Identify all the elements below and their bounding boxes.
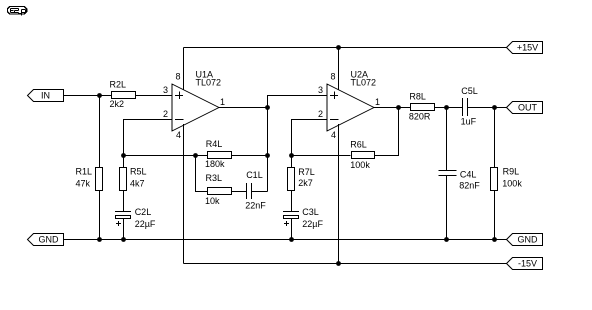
terminal GND right	[507, 234, 543, 246]
wire C4L column top	[446, 108, 448, 171]
capacitor C1L	[245, 170, 266, 211]
capacitor C3L (polarized)	[283, 207, 323, 229]
svg-text:TL072: TL072	[351, 78, 377, 88]
svg-text:47k: 47k	[76, 178, 91, 188]
wire U1A pin8 to +15V rail	[183, 48, 185, 92]
svg-text:4k7: 4k7	[130, 178, 145, 188]
resistor R5L	[120, 167, 147, 191]
junction R4L right node	[265, 153, 270, 158]
junction C4L/GND	[444, 237, 449, 242]
svg-text:1: 1	[375, 97, 380, 107]
junction U2A pin4/-15V	[336, 261, 341, 266]
wire U2A pin2 left and down	[292, 120, 328, 156]
svg-text:2k2: 2k2	[110, 99, 125, 109]
svg-text:TL072: TL072	[196, 78, 222, 88]
wire R9L to GND rail	[494, 191, 496, 240]
svg-text:R8L: R8L	[409, 92, 426, 102]
wire U2A pin8 to +15V rail	[338, 48, 340, 92]
junction feedback/R5L node	[121, 153, 126, 158]
resistor R9L	[491, 167, 523, 191]
ground rail GND	[64, 239, 507, 241]
wire C4L to GND rail	[446, 176, 448, 240]
wire output node down to feedback row	[267, 108, 269, 192]
svg-text:R7L: R7L	[298, 167, 315, 177]
svg-text:22nF: 22nF	[245, 201, 266, 211]
terminal GND left	[28, 234, 64, 246]
wire R8L to C5L	[435, 107, 463, 109]
wire IN node down to R1L	[99, 96, 101, 168]
junction +15V/U2A pin8	[336, 45, 341, 50]
svg-text:R3L: R3L	[206, 173, 223, 183]
svg-text:4: 4	[331, 130, 336, 140]
terminal OUT	[507, 102, 543, 114]
junction R1L/GND	[97, 237, 102, 242]
wire R1L to GND rail	[99, 191, 101, 240]
junction C4L top	[444, 105, 449, 110]
wire U1A pin4 down to -15V rail	[183, 124, 185, 264]
svg-text:C2L: C2L	[135, 207, 152, 217]
svg-text:R6L: R6L	[350, 139, 367, 149]
resistor R1L	[76, 167, 103, 191]
svg-text:C3L: C3L	[302, 207, 319, 217]
wire R6L to output column	[375, 108, 399, 156]
svg-text:GND: GND	[518, 234, 539, 244]
svg-text:100k: 100k	[502, 178, 522, 188]
capacitor C2L (polarized)	[115, 207, 156, 229]
svg-text:IN: IN	[41, 90, 50, 100]
svg-text:22µF: 22µF	[135, 219, 156, 229]
svg-text:OUT: OUT	[518, 102, 538, 112]
svg-text:GND: GND	[39, 234, 60, 244]
svg-text:+15V: +15V	[517, 42, 538, 52]
svg-text:8: 8	[330, 72, 335, 82]
svg-text:R9L: R9L	[503, 167, 520, 177]
resistor R7L	[288, 167, 315, 191]
wire C3L to GND rail	[291, 219, 293, 240]
svg-text:10k: 10k	[205, 196, 220, 206]
svg-text:3: 3	[163, 85, 168, 95]
junction R9L/GND	[492, 237, 497, 242]
wire R4L to output column	[232, 155, 268, 157]
junction R4L left node	[193, 153, 198, 158]
svg-text:1: 1	[220, 97, 225, 107]
resistor R3L	[205, 173, 232, 206]
svg-text:22µF: 22µF	[302, 219, 323, 229]
svg-text:1uF: 1uF	[461, 117, 477, 127]
wire U1A pin2 left and down	[124, 120, 173, 156]
terminal -15V	[507, 258, 543, 270]
svg-text:180k: 180k	[205, 159, 225, 169]
svg-text:2k7: 2k7	[298, 178, 313, 188]
wire R5L top	[123, 156, 125, 168]
junction C2L/GND	[121, 237, 126, 242]
terminal IN	[28, 90, 64, 102]
junction U1A output node	[265, 105, 270, 110]
wire C5L to OUT	[468, 107, 507, 109]
op-amp U2A	[318, 70, 380, 140]
op-amp U1A	[163, 70, 225, 140]
svg-text:8: 8	[175, 72, 180, 82]
svg-text:R2L: R2L	[110, 80, 127, 90]
junction U2A output node	[396, 105, 401, 110]
svg-text:C5L: C5L	[461, 86, 478, 96]
svg-text:100k: 100k	[350, 160, 370, 170]
wire IN to R2L	[64, 95, 112, 97]
wire feedback row	[124, 155, 208, 157]
terminal +15V	[507, 42, 543, 54]
-15V power rail	[184, 263, 507, 265]
wire C1L to output column	[252, 191, 268, 193]
wire U2A output to R8L	[374, 107, 411, 109]
capacitor C4L	[439, 170, 481, 191]
junction R7L/R6L node	[289, 153, 294, 158]
svg-text:820R: 820R	[409, 112, 431, 122]
svg-text:3: 3	[318, 85, 323, 95]
svg-text:82nF: 82nF	[459, 181, 480, 191]
junction R9L top	[492, 105, 497, 110]
svg-text:R1L: R1L	[76, 167, 93, 177]
resistor R4L	[205, 139, 232, 169]
wire output node up and right to U2A pin3	[268, 96, 328, 108]
svg-text:2: 2	[163, 109, 168, 119]
svg-text:2: 2	[318, 109, 323, 119]
wire U2A pin4 down to -15V rail	[338, 124, 340, 264]
wire R9L column top	[494, 108, 496, 168]
svg-text:C1L: C1L	[246, 170, 263, 180]
wire R3L to C1L	[232, 191, 247, 193]
node IN junction	[97, 93, 102, 98]
capacitor C5L	[461, 86, 478, 126]
svg-text:R5L: R5L	[130, 167, 147, 177]
wire C2L to GND rail	[123, 219, 125, 240]
+15V power rail	[184, 47, 507, 49]
wire node to R6L	[292, 155, 351, 157]
wire R7L top stub	[291, 156, 293, 168]
svg-text:-15V: -15V	[518, 258, 537, 268]
svg-text:C4L: C4L	[460, 170, 477, 180]
resistor R2L	[110, 80, 136, 110]
svg-text:R4L: R4L	[206, 139, 223, 149]
wire R7L to C3L	[291, 191, 293, 212]
esp logo	[8, 7, 27, 16]
wire R5L to C2L	[123, 191, 125, 212]
junction C3L/GND	[289, 237, 294, 242]
resistor R6L	[350, 139, 374, 170]
resistor R8L	[409, 92, 435, 122]
wire U1A output	[219, 107, 268, 109]
wire loop left vertical	[196, 156, 208, 192]
wire R2L to U1A pin3	[136, 95, 173, 97]
svg-text:4: 4	[176, 130, 181, 140]
